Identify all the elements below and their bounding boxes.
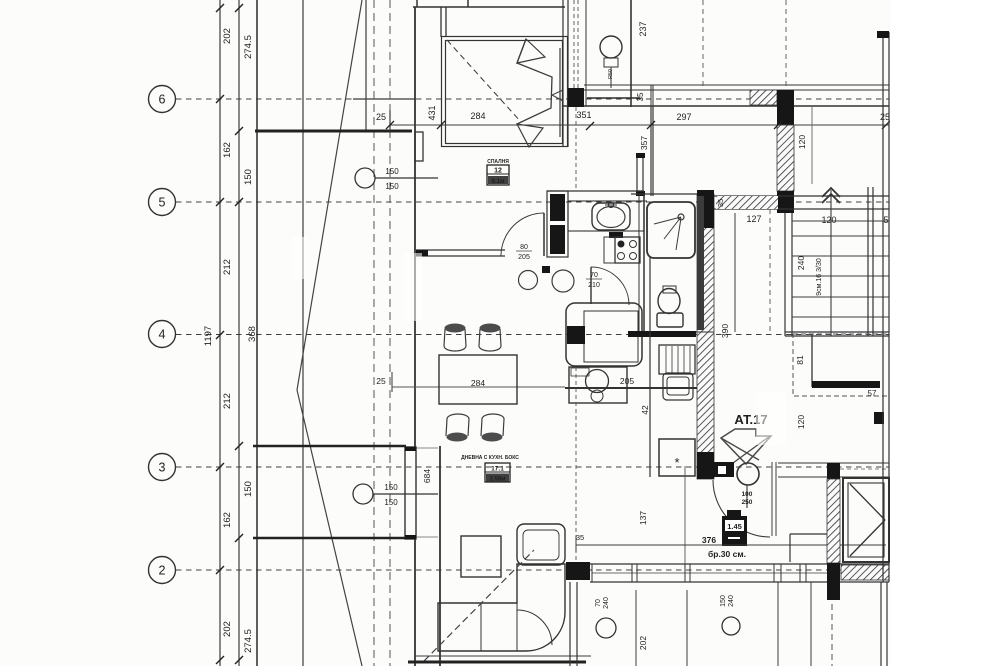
terrace line mid2 [253,537,406,540]
window rect left [405,447,416,539]
dim end bar [389,110,391,131]
svg-text:СПАЛНЯ: СПАЛНЯ [487,159,509,165]
svg-text:202: 202 [222,28,233,44]
wall stub rect top [415,132,423,161]
bed dashed diagonal [447,40,521,122]
bed side notch [552,90,563,101]
pedestal sink base [604,58,618,67]
bed fold bottom triangle [517,124,543,147]
band mid line [592,572,889,574]
svg-text:2.58м: 2.58м [489,477,506,483]
pedestal sink circle [600,36,622,58]
right edge black tick [877,31,889,38]
dashed x786 top [785,0,787,88]
svg-text:127: 127 [746,214,761,224]
building left edge x=257 [256,0,258,666]
corridor east wall pair [650,107,652,196]
band line y98 [587,97,640,99]
ELEVATOR [778,31,889,600]
dashed line x390 [389,0,391,666]
band line y84 [584,84,889,86]
wall end cap [416,250,428,256]
grid bubble 4 [149,321,176,348]
entry door leaf [543,213,545,256]
structure line y387 [392,386,565,388]
stair stringer [830,190,832,336]
svg-text:70: 70 [595,599,602,607]
right margin white [890,0,1000,666]
STAIRWELL [703,0,889,338]
band line y90 [584,89,889,91]
svg-text:25: 25 [376,376,386,386]
grid bubble 3 [149,454,176,481]
counter rect [568,201,644,231]
black glyph under sink [609,232,623,238]
tall cabinet rect [547,191,568,257]
divider x685 [684,466,686,564]
stool 4 [481,414,504,436]
svg-text:12: 12 [494,168,502,175]
dashed duct mid [575,367,577,562]
sofa division 1 [480,603,482,651]
south wall left thick [408,661,586,664]
svg-text:70: 70 [590,272,598,279]
stair mid wall pair [867,187,869,336]
kitchen-living door leaf [590,267,592,304]
svg-text:9см.16 3/30: 9см.16 3/30 [816,258,823,296]
terrace divider x812 [811,105,813,184]
dashed void rect [793,334,889,396]
LEFT TERRACE [253,7,697,666]
svg-text:205: 205 [518,254,530,261]
toilet bowl [658,289,680,314]
void horizontal [812,385,874,387]
grid bubble 6 [149,86,176,113]
burners [618,241,625,248]
left wall x415 [414,7,416,449]
balcony circle 1 [596,618,616,638]
GRIDS [149,86,890,584]
svg-text:284: 284 [471,378,485,388]
island inner rect [584,311,638,362]
living west wall x440 [439,446,441,666]
south wall left thin [414,655,591,657]
roof dashed diagonal [424,550,534,661]
stair west wall pair [784,213,786,336]
wc west wall x650 [649,256,651,477]
dashed x770 [769,209,771,332]
radiator [659,345,695,374]
arrow cross line 2 [733,436,770,463]
bath top wall [631,193,714,195]
dim line y545 [576,544,886,546]
divider x778 [777,582,779,666]
svg-text:150: 150 [243,481,254,497]
svg-text:351: 351 [576,110,591,120]
entry door arc [713,480,770,537]
ENTRY HALL [576,412,886,562]
entry arrow outline [721,429,771,464]
svg-text:376: 376 [702,535,716,545]
WATERMARK [292,237,786,445]
svg-text:17.1: 17.1 [491,466,504,473]
entry door arc [501,213,544,256]
stove small rect [604,237,615,263]
elevator outer [843,478,889,562]
electric panel box [722,516,747,546]
svg-text:35: 35 [636,92,645,101]
column black bottom [777,191,794,213]
sofa division 2 [516,603,518,651]
bedroom west wall [440,7,442,37]
wire line x366 top [365,0,367,131]
elevator triangle [850,484,885,520]
band bottom line [590,581,889,583]
wall stub x468 [467,0,469,7]
wire line x303 [302,0,304,666]
sink room wall x631 [630,0,632,107]
svg-text:1197: 1197 [203,326,214,346]
svg-text:274.5: 274.5 [243,35,254,59]
cabinet black 1 [550,194,565,221]
band black column top [777,90,794,125]
svg-text:120: 120 [821,215,836,225]
svg-text:42: 42 [640,405,650,415]
sink rounded rect [592,203,630,230]
svg-text:240: 240 [796,256,806,270]
wm drum [586,370,609,393]
dim line A x=220 [219,0,221,666]
svg-text:357: 357 [639,136,649,150]
svg-text:390: 390 [720,324,730,338]
section V line [297,0,362,666]
wall column dark left strip [697,196,704,330]
svg-text:162: 162 [222,142,233,158]
shower head [678,214,684,220]
corridor wall x563 [562,0,564,147]
grid line 4 [176,334,889,336]
svg-text:205: 205 [620,376,634,386]
wall column black low [697,452,714,479]
wall column hatch [697,194,714,479]
grid bubble 2 [149,557,176,584]
stair landing lines [785,331,889,333]
band hatch [750,90,777,105]
column leader bottom [373,493,438,495]
wc bottom wall [630,331,714,333]
divider x811 [810,582,812,666]
dashed duct x574 [573,0,575,93]
balcony wall left pair [569,582,571,666]
corridor line x735 [734,213,736,332]
grid line 2 [176,569,889,571]
wall column black top [697,190,714,228]
solid grid6 segment at terrace [353,98,415,100]
svg-text:250: 250 [742,499,753,506]
band line y105 [563,105,889,107]
BALCONY BOTTOM [570,466,887,666]
svg-text:150: 150 [385,182,399,191]
column hatch mid [777,125,794,191]
shaft wall column hatch [827,479,840,563]
dashed x832 [831,584,833,666]
TOP WALL BAND [563,85,889,213]
svg-text:R50: R50 [608,69,614,79]
dim ticks [386,121,890,130]
svg-text:368: 368 [247,326,258,342]
grid bubble 5 [149,189,176,216]
bedroom inner rect [446,41,563,144]
svg-text:150: 150 [385,167,399,176]
deco circle big [552,270,574,292]
sofa chaise [517,524,565,565]
divider x636 [635,590,637,666]
svg-text:212: 212 [222,259,233,275]
corridor wall x568 [567,0,569,147]
stool 1 [444,329,466,351]
svg-text:81: 81 [795,355,805,365]
south hatch wall [841,565,889,580]
svg-text:3: 3 [159,461,166,475]
grid line 5 [176,201,889,203]
LIVING ROOM [408,455,591,662]
svg-text:431: 431 [427,105,437,120]
stool 2 [479,329,501,351]
wall stub x416 [416,0,418,7]
dim line [390,124,889,126]
svg-text:ДНЕВНА С КУХН. БОКС: ДНЕВНА С КУХН. БОКС [461,455,519,461]
lobby wall top [778,462,889,464]
svg-text:150: 150 [384,498,398,507]
svg-text:202: 202 [222,621,233,637]
svg-text:284: 284 [470,111,485,121]
tiny black mark [542,266,550,273]
svg-text:240: 240 [603,597,610,609]
svg-text:25: 25 [376,112,386,122]
sofa L outline [438,564,565,651]
elevator inner [848,483,884,557]
TOP CORRIDOR AND SINK ROOM [563,0,653,196]
black bar [812,381,880,388]
shower spray lines [654,217,681,224]
shaft wall column black top [827,463,840,479]
dashed line x374 [373,0,375,666]
bath west wall [643,194,645,332]
bed blanket polyline [517,39,552,124]
faucet [609,203,614,208]
svg-text:9.1м: 9.1м [492,179,505,185]
svg-text:137: 137 [638,511,648,525]
svg-text:2: 2 [159,564,166,578]
DIMENSION LINE y125 [376,105,890,131]
stair steps [792,221,889,317]
dashed duct x578 [577,0,579,93]
duct niche rect [637,157,643,191]
bed fold top [517,39,545,63]
washing machine rect [569,367,627,403]
sink bowl ellipse [597,207,625,228]
boiler rounded box [663,373,693,400]
svg-text:бр.30 см.: бр.30 см. [708,549,746,559]
BEDROOM [413,0,568,185]
dim ticks column A [216,4,224,664]
dining table [439,355,517,404]
dim line B x=239 [238,0,240,666]
svg-text:1.45: 1.45 [727,522,742,531]
svg-text:100: 100 [742,491,753,498]
SOUTH WALL BAND [566,562,889,582]
terrace line mid1 [253,445,406,448]
svg-text:210: 210 [588,282,600,289]
kitchen top wall [416,249,505,251]
BATHROOM COLUMN [628,136,714,650]
grid line 6 [176,98,889,100]
door black stub [714,462,734,477]
grid line 3 [176,466,889,468]
band verticals x651 [650,85,652,107]
fridge box with star [659,439,695,476]
balcony circle 2 [722,617,740,635]
svg-text:5: 5 [883,215,888,225]
wm panel [571,368,589,376]
stool 3 [446,414,469,436]
svg-text:684: 684 [422,469,432,483]
island rounded rect [566,303,642,366]
arrow cross line 1 [721,438,759,460]
window mullions [592,564,806,582]
small black glyph [874,412,884,424]
svg-text:150: 150 [384,483,398,492]
toilet tank [657,313,683,327]
svg-text:297: 297 [676,112,691,122]
LOBBY AND SHAFT [793,334,889,429]
svg-text:80: 80 [520,244,528,251]
shower tray [647,202,695,258]
svg-text:120: 120 [796,415,806,429]
shaft wall column black low [827,563,840,600]
svg-text:212: 212 [222,393,233,409]
svg-text:162: 162 [222,512,233,528]
svg-text:274.5: 274.5 [243,629,254,653]
dashed duct x576 mid [575,107,577,191]
bed headboard [559,48,561,137]
top wall y7 [413,6,565,8]
top wall hatch [716,196,778,209]
svg-text:237: 237 [638,21,648,36]
kitchen-living door arc [591,267,629,305]
svg-text:35: 35 [576,533,584,542]
toilet flush [663,286,676,293]
void vertical [811,334,813,387]
svg-text:*: * [674,455,679,470]
bedroom outer rect [442,37,568,147]
svg-text:6: 6 [159,93,166,107]
coffee table [461,536,501,577]
svg-text:202: 202 [638,636,648,650]
room tag box [485,463,510,482]
column circle bottom [353,484,373,504]
svg-text:35: 35 [716,199,725,207]
stair top wall line1 [714,195,889,197]
svg-text:57: 57 [868,389,877,398]
stair up arrow [822,188,840,197]
svg-text:240: 240 [728,595,735,607]
entry stem [746,485,748,508]
pedestal stem [610,67,612,88]
corner black block [566,562,590,580]
entry circle [737,463,759,485]
DINING [439,324,517,442]
column leader top [375,177,438,179]
svg-text:4: 4 [159,328,166,342]
band black block left [568,88,584,107]
dim ticks column B [235,4,243,664]
cabinet black 2 [550,225,565,254]
stove rect [615,237,640,263]
svg-text:120: 120 [797,135,807,149]
KITCHEN [416,191,650,415]
VERTICAL STRUCTURE LINES [297,0,415,666]
sofa inner arc [517,610,552,645]
stair top wall line2 [714,208,889,210]
deco circle small [519,271,538,290]
wm small circle [591,390,603,402]
svg-text:5: 5 [159,196,166,210]
corner wall piece [789,534,791,562]
svg-text:150: 150 [720,595,727,607]
band top line [590,563,889,565]
column circle top [355,168,375,188]
island black block [567,326,585,344]
LEFT DIMENSION LINES [203,0,258,666]
dashed x703 top [702,0,704,88]
right edge pair low [880,582,882,666]
sink room wall x586 [585,0,587,106]
building right edge pair [882,32,884,582]
wc bottom dark band [628,331,696,337]
door jamb pair [771,462,773,536]
counter top line [547,190,644,192]
svg-text:150: 150 [243,169,254,185]
terrace parapet top [255,130,412,133]
